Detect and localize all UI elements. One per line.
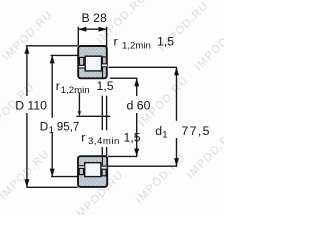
d1 dimension line lower segment	[176, 138, 178, 166]
svg-text:95,7: 95,7	[57, 120, 80, 133]
lower section left rib gap	[79, 166, 84, 168]
D1 top arrow	[50, 55, 55, 63]
svg-text:60: 60	[137, 99, 151, 113]
svg-text:1: 1	[49, 125, 54, 136]
upper section right rib top edge	[102, 66, 106, 68]
svg-text:1,5: 1,5	[97, 79, 114, 93]
D top arrow	[24, 46, 29, 54]
upper section left cage pocket	[79, 57, 83, 65]
svg-text:IMPOD.RU: IMPOD.RU	[1, 9, 56, 64]
r leader vertical line	[78, 92, 80, 113]
d1 top arrow	[174, 67, 179, 75]
D top extension line	[26, 45, 78, 47]
svg-text:1: 1	[162, 129, 167, 140]
d1 dimension line upper segment	[176, 67, 178, 121]
upper section right cage pocket	[102, 57, 106, 64]
upper section left rib top edge	[79, 67, 85, 69]
d dimension line upper segment	[136, 78, 138, 96]
lower bearing section body	[78, 156, 107, 187]
D bottom arrow	[24, 179, 29, 187]
D1 bottom arrow	[50, 169, 55, 177]
d dimension line lower segment	[136, 113, 138, 157]
svg-text:1,2min: 1,2min	[61, 85, 90, 96]
d1 top extension line	[109, 66, 178, 68]
edge tick left lower	[101, 147, 103, 156]
d1 bottom arrow	[174, 158, 179, 166]
svg-text:110: 110	[27, 99, 47, 113]
svg-text:d: d	[127, 99, 134, 113]
r leader small arrow	[78, 111, 81, 116]
lower section left cage pocket	[79, 168, 83, 174]
d bottom arrow	[134, 149, 139, 157]
svg-text:IMPOD.RU: IMPOD.RU	[0, 148, 52, 203]
svg-text:r: r	[114, 35, 118, 49]
svg-text:1,5: 1,5	[157, 35, 174, 49]
D bottom extension line	[27, 186, 78, 188]
upper section left rib gap	[79, 66, 84, 68]
edge tick left upper	[101, 96, 103, 131]
svg-text:D: D	[15, 99, 24, 113]
svg-text:1,2min: 1,2min	[122, 40, 151, 51]
edge tick right lower	[106, 147, 108, 156]
svg-text:r: r	[81, 131, 85, 145]
svg-text:D: D	[40, 120, 48, 133]
d top arrow	[134, 78, 139, 86]
D dimension line upper segment	[26, 46, 28, 96]
lower section roller	[85, 163, 101, 177]
D1 dimension line lower segment	[51, 133, 53, 177]
svg-text:B 28: B 28	[82, 11, 107, 25]
D1 bottom extension line	[51, 176, 78, 178]
r leader horizontal line	[77, 115, 111, 117]
B dimension line	[78, 28, 106, 30]
lower section left rib bottom edge	[79, 165, 85, 167]
bore top extension line	[110, 77, 137, 79]
svg-text:1,5: 1,5	[124, 131, 141, 145]
B left extension line	[77, 27, 79, 46]
svg-text:IMPOD.RU: IMPOD.RU	[134, 152, 189, 207]
lower section right rib separation	[101, 157, 103, 166]
B left arrow	[78, 27, 86, 32]
D1 dimension line upper segment	[51, 55, 53, 117]
svg-text:d: d	[155, 124, 162, 138]
B right arrow	[99, 27, 107, 32]
svg-text:3,4min: 3,4min	[88, 136, 120, 147]
upper bearing section body	[78, 46, 107, 78]
lower section right rib gap	[102, 167, 107, 169]
lower d1 extension line	[108, 165, 177, 167]
B right extension line	[106, 27, 108, 46]
D dimension line lower segment	[26, 113, 28, 187]
lower section right rib bottom edge	[102, 165, 106, 167]
upper section right rib separation	[102, 67, 104, 77]
lower bore extension line	[108, 155, 137, 157]
D1 top extension line	[51, 54, 78, 56]
upper section right rib gap	[102, 64, 107, 66]
svg-text:r: r	[56, 79, 60, 93]
svg-text:77,5: 77,5	[181, 124, 211, 138]
svg-text:IMPOD.RU: IMPOD.RU	[193, 19, 224, 74]
lower section right cage pocket	[102, 169, 106, 176]
upper section roller	[85, 56, 101, 71]
edge tick right upper	[106, 96, 108, 131]
